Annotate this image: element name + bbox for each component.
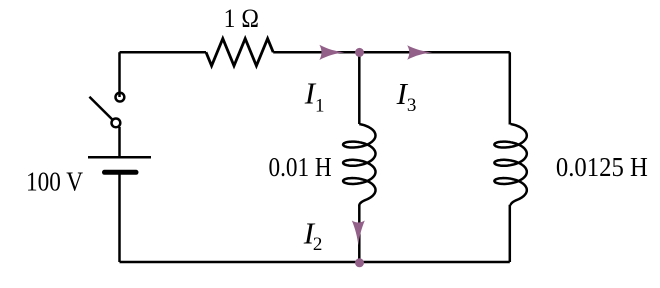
svg-text:1 Ω: 1 Ω xyxy=(224,4,259,33)
svg-text:0.0125 H: 0.0125 H xyxy=(556,152,648,182)
svg-text:3: 3 xyxy=(407,95,417,116)
wire battery to bottom xyxy=(118,172,121,262)
node top junction xyxy=(355,48,364,57)
svg-text:100 V: 100 V xyxy=(26,167,83,197)
wire middle branch lower xyxy=(358,205,361,262)
wire bottom xyxy=(120,261,510,264)
svg-text:2: 2 xyxy=(313,234,323,255)
svg-text:1: 1 xyxy=(315,96,325,117)
svg-text:0.01 H: 0.01 H xyxy=(269,152,332,182)
wire resistor to top-right corner xyxy=(273,51,510,54)
switch top contact circle xyxy=(116,93,125,102)
wire middle branch upper xyxy=(358,52,361,124)
inductor L2 0.0125 H xyxy=(494,124,526,205)
switch pivot circle xyxy=(112,119,121,128)
wire left branch top xyxy=(118,52,121,97)
current arrow I3 xyxy=(407,45,432,60)
switch blade xyxy=(89,97,112,120)
current arrow I2 xyxy=(352,221,365,246)
wire top left to resistor xyxy=(120,51,207,54)
inductor L1 0.01 H xyxy=(343,124,375,205)
current arrow I1 xyxy=(319,45,344,60)
resistor R 1 ohm xyxy=(206,39,273,66)
battery positive plate xyxy=(88,156,151,159)
wire right branch lower xyxy=(509,205,512,262)
wire right branch upper xyxy=(509,52,512,124)
battery negative plate xyxy=(105,170,137,175)
node bottom junction xyxy=(355,258,364,267)
wire switch to battery xyxy=(118,127,121,156)
